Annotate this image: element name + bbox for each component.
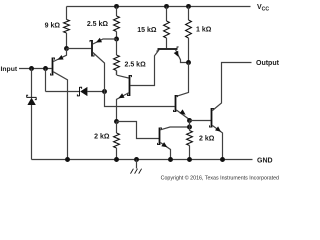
wire R7 bottom lead xyxy=(189,146,191,160)
transistor Q4 base bar xyxy=(174,95,178,112)
node rail-R2 junction xyxy=(114,4,119,9)
node R7-GND junction xyxy=(187,157,192,162)
node rail-R3 junction xyxy=(164,4,169,9)
node Q3e/R4/Q4c junction xyxy=(186,60,191,65)
wire GND bottom rail xyxy=(32,159,253,161)
svg-text:Copyright © 2016, Texas Instru: Copyright © 2016, Texas Instruments Inco… xyxy=(161,175,279,182)
transistor Q6 base bar xyxy=(128,75,132,96)
copyright notice xyxy=(161,175,279,182)
svg-text:9 kΩ: 9 kΩ xyxy=(45,22,61,29)
wire Q6 emitter xyxy=(117,93,129,122)
label Input xyxy=(1,66,18,73)
transistor Q6 emitter arrow (NPN) xyxy=(118,93,124,98)
wire R4 bottom lead xyxy=(188,38,190,63)
resistor R2 2.5k xyxy=(114,16,120,31)
label 2 kOhm right xyxy=(199,136,215,143)
wire R3 top lead xyxy=(166,7,168,22)
node Q4e/Q5b junction xyxy=(187,118,192,123)
transistor Q5 base bar xyxy=(210,108,214,128)
svg-text:1 kΩ: 1 kΩ xyxy=(196,27,212,34)
transistor Q3 base bar xyxy=(156,47,178,51)
resistor R7 2k xyxy=(187,131,193,146)
label 15 kOhm xyxy=(137,27,157,34)
transistor Q2 base bar xyxy=(90,40,94,57)
svg-text:15 kΩ: 15 kΩ xyxy=(137,27,157,34)
node input-D1 junction xyxy=(29,66,34,71)
wire Q1 collector xyxy=(53,72,67,160)
wire Vcc top rail xyxy=(67,6,251,8)
wire Q3 emitter xyxy=(176,50,189,63)
node R2/Q2e junction xyxy=(114,37,119,42)
wire Q5 emitter xyxy=(212,126,222,160)
wire R7 top lead xyxy=(189,127,191,131)
label 2.5 kOhm lower xyxy=(125,61,147,68)
node rail-R4 junction xyxy=(186,4,191,9)
svg-text:Output: Output xyxy=(256,60,280,67)
transistor Q4 emitter arrow (NPN) xyxy=(180,109,186,114)
wire D2 anode lead xyxy=(87,91,104,93)
wire R2 bottom lead xyxy=(116,32,118,40)
wire R5 bottom lead xyxy=(116,71,118,76)
transistor Q3 emitter arrow (NPN) xyxy=(174,51,179,57)
diode D2 cathode bar xyxy=(77,87,81,96)
wire Q2 emitter xyxy=(93,39,117,44)
wire Q4 emitter xyxy=(176,110,189,121)
wire Q4e node to Q7c node xyxy=(189,121,191,128)
wire Q4 collector xyxy=(176,63,188,97)
transistor Q1 emitter arrow (PNP) xyxy=(58,55,64,60)
wire Q7 emitter xyxy=(160,143,170,160)
wire D1 anode lead xyxy=(31,105,33,160)
svg-text:2.5 kΩ: 2.5 kΩ xyxy=(125,61,147,68)
wire Q5 base xyxy=(190,120,211,122)
wire R3 bottom lead (Q3 base) xyxy=(166,38,168,48)
wire Q7 collector xyxy=(160,127,189,130)
node GND symbol junction xyxy=(134,157,139,162)
wire input-D2 vertical xyxy=(45,69,47,92)
resistor R5 2.5k xyxy=(114,55,120,70)
ground symbol xyxy=(131,160,142,174)
diode D1 cathode bar xyxy=(27,95,37,99)
wire Q3 collector xyxy=(130,50,159,86)
diode D1 triangle xyxy=(27,98,35,105)
node Q1c-GND junction xyxy=(65,157,70,162)
resistor R3 15k xyxy=(164,21,170,38)
label 1 kOhm xyxy=(196,27,212,34)
svg-text:2 kΩ: 2 kΩ xyxy=(94,134,110,141)
wire Q2 collector xyxy=(93,53,175,107)
resistor R6 2k xyxy=(114,133,120,148)
transistor Q2 emitter arrow (PNP) xyxy=(96,38,102,43)
wire D1 cathode lead xyxy=(31,69,33,98)
node R6-GND junction xyxy=(114,157,119,162)
wire Q1 emitter xyxy=(53,49,66,62)
wire D2 cathode lead xyxy=(46,91,80,93)
transistor Q7 base bar xyxy=(158,128,162,146)
wire Q5 collector to output xyxy=(212,63,251,111)
node Q6e/R6/Q7b junction xyxy=(114,119,119,124)
transistor Q1 base bar xyxy=(51,58,55,76)
svg-text:GND: GND xyxy=(257,158,273,165)
svg-text:2 kΩ: 2 kΩ xyxy=(199,136,215,143)
wire R6 bottom lead xyxy=(116,148,118,160)
label 9 kOhm xyxy=(45,22,61,29)
resistor R1 9k xyxy=(64,20,70,33)
wire R6 top lead xyxy=(116,122,118,134)
svg-text:Input: Input xyxy=(1,66,18,73)
node Q5e-GND junction xyxy=(220,157,225,162)
wire R1 bottom lead xyxy=(66,33,68,49)
wire R2 top lead xyxy=(116,7,118,17)
wire Q6 collector xyxy=(117,71,129,79)
label 2.5 kOhm upper xyxy=(87,21,109,28)
label GND xyxy=(257,158,273,165)
wire Q6e to Q7 base jog xyxy=(117,122,160,139)
node input-D2 junction xyxy=(43,66,48,71)
transistor Q5 emitter arrow (NPN) xyxy=(215,126,221,131)
wire R5 top lead xyxy=(116,39,118,55)
node D2-Q2c junction xyxy=(102,89,107,94)
wire node A to Q2 base xyxy=(67,48,92,50)
node A junction 9k/Q1e/Q2b xyxy=(64,46,69,51)
transistor Q7 emitter arrow (NPN) xyxy=(161,142,167,147)
svg-text:2.5 kΩ: 2.5 kΩ xyxy=(87,21,109,28)
node Q7c/Q4e-R7 junction xyxy=(187,125,192,130)
wire R4 top lead xyxy=(188,7,190,21)
label VCC xyxy=(257,4,269,12)
node Q7e-GND junction xyxy=(168,157,173,162)
wire input lead xyxy=(19,68,52,70)
svg-text:VCC: VCC xyxy=(257,4,269,12)
diode D2 triangle xyxy=(80,87,87,96)
wire R1 top lead xyxy=(66,7,68,20)
resistor R4 1k xyxy=(186,20,192,38)
label Output xyxy=(256,60,280,67)
label 2 kOhm left xyxy=(94,134,110,141)
